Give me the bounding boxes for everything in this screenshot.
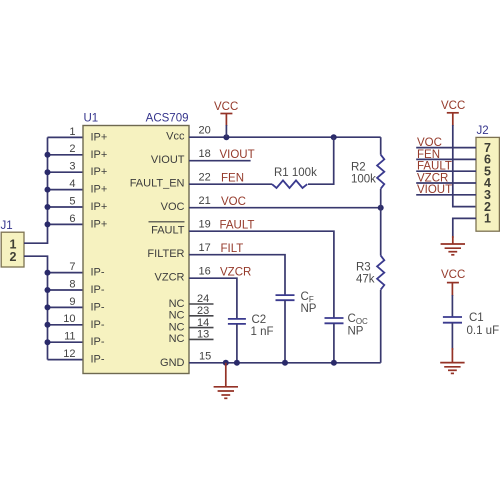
capacitor Coc xyxy=(325,313,369,337)
wire VOC to J2 pin 7 xyxy=(416,147,476,149)
wire VZCR to J2 pin 4 xyxy=(416,182,476,184)
svg-text:19: 19 xyxy=(199,219,211,231)
svg-text:IP-: IP- xyxy=(91,267,105,279)
svg-text:VCC: VCC xyxy=(441,100,465,112)
svg-text:IP+: IP+ xyxy=(91,201,108,213)
svg-text:VZCR: VZCR xyxy=(417,172,448,184)
svg-text:C2: C2 xyxy=(252,314,267,326)
svg-text:3: 3 xyxy=(69,161,75,173)
wire J1 pin1 to IP+ bus xyxy=(24,137,48,243)
junction dots IP+ bus xyxy=(45,152,51,228)
node R1 pull-up junction xyxy=(331,134,337,140)
svg-text:IP+: IP+ xyxy=(91,149,108,161)
svg-text:IP+: IP+ xyxy=(91,218,108,230)
svg-text:VZCR: VZCR xyxy=(155,272,185,284)
svg-text:4: 4 xyxy=(69,178,75,190)
VCC supply symbol above J2 xyxy=(441,100,465,126)
svg-text:2: 2 xyxy=(69,143,75,155)
wire IP+ pin3 xyxy=(48,171,84,173)
wire R2 bottom to VOC xyxy=(380,189,382,208)
svg-text:1: 1 xyxy=(484,212,491,226)
svg-text:VOC: VOC xyxy=(161,201,185,213)
svg-text:J1: J1 xyxy=(1,220,13,232)
U1 right pin names xyxy=(130,131,185,369)
svg-text:47k: 47k xyxy=(356,274,375,286)
wire VCC rail down to R2 xyxy=(380,137,382,155)
svg-text:21: 21 xyxy=(199,195,211,207)
wire VZCR pin 16 to C2 xyxy=(189,278,237,319)
U1 left pin names IP- xyxy=(91,267,105,366)
junction dots IP- bus xyxy=(45,270,51,346)
left pin numbers 1-12 xyxy=(63,126,75,360)
wire VOC pin 21 xyxy=(189,207,381,209)
svg-text:8: 8 xyxy=(69,278,75,290)
node Cf tap xyxy=(282,360,288,366)
svg-text:11: 11 xyxy=(64,331,75,343)
svg-text:20: 20 xyxy=(199,125,211,137)
svg-text:100k: 100k xyxy=(351,174,376,186)
node C2 tap xyxy=(234,360,240,366)
VCC supply symbol above C1 xyxy=(441,269,465,296)
node VOC divider junction xyxy=(378,205,384,211)
svg-text:5: 5 xyxy=(69,195,75,207)
svg-text:1: 1 xyxy=(69,126,75,138)
svg-text:15: 15 xyxy=(199,350,211,362)
wire FILT pin 17 to Cf xyxy=(189,255,285,295)
svg-text:VCC: VCC xyxy=(441,269,465,281)
wire C2 bottom to ground rail xyxy=(236,324,238,363)
wire Cf bottom to ground rail xyxy=(284,300,286,363)
svg-text:NC: NC xyxy=(169,321,185,333)
wire IP+ pin4 xyxy=(48,189,84,191)
wire IP+ pin1 xyxy=(48,136,84,138)
svg-text:IP+: IP+ xyxy=(91,131,108,143)
wire VCC to J2 pin 2 xyxy=(453,125,476,207)
wire IP- pin9 xyxy=(48,306,84,308)
wire FAULT pin 19 to Coc xyxy=(189,231,334,318)
wire R3 bottom to ground rail xyxy=(380,290,382,363)
svg-text:FILTER: FILTER xyxy=(147,248,184,260)
svg-text:VIOUT: VIOUT xyxy=(220,149,255,161)
svg-text:U1: U1 xyxy=(84,113,99,125)
svg-text:R2: R2 xyxy=(351,162,366,174)
svg-text:C1: C1 xyxy=(469,312,484,324)
NC stub pin 13 xyxy=(189,338,214,340)
svg-text:22: 22 xyxy=(199,172,211,184)
resistor R2 xyxy=(351,155,384,189)
svg-text:R3: R3 xyxy=(356,262,371,274)
ground symbol below pin 15 rail xyxy=(214,363,238,399)
capacitor C1 xyxy=(443,312,499,337)
wire R1 right to VCC rail xyxy=(308,137,334,184)
NC stub pin 14 xyxy=(189,327,214,329)
wire IP- pin8 xyxy=(48,289,84,291)
svg-text:17: 17 xyxy=(199,242,211,254)
wire VIOUT to J2 pin 3 xyxy=(416,194,476,196)
wire FEN to J2 pin 6 xyxy=(416,158,476,160)
svg-text:FAULT: FAULT xyxy=(151,225,185,237)
svg-text:IP+: IP+ xyxy=(91,184,108,196)
svg-text:NC: NC xyxy=(169,333,185,345)
svg-text:IP-: IP- xyxy=(91,301,105,313)
svg-text:FEN: FEN xyxy=(221,173,244,185)
svg-text:VCC: VCC xyxy=(214,101,238,113)
svg-text:1 nF: 1 nF xyxy=(251,326,274,338)
svg-text:7: 7 xyxy=(69,261,75,273)
svg-text:IP-: IP- xyxy=(91,336,105,348)
capacitor Cf xyxy=(276,291,317,315)
wire IP+ pin6 xyxy=(48,223,84,225)
svg-text:FILT: FILT xyxy=(221,243,244,255)
svg-text:ACS709: ACS709 xyxy=(146,113,189,125)
svg-text:6: 6 xyxy=(69,213,75,225)
svg-text:10: 10 xyxy=(63,313,75,325)
svg-text:Vcc: Vcc xyxy=(166,131,185,143)
wire IP- pin12 xyxy=(48,359,84,361)
svg-text:VIOUT: VIOUT xyxy=(151,154,185,166)
wire FEN pin 22 to R1 xyxy=(189,183,272,185)
resistor R3 xyxy=(356,256,384,290)
U1 FAULT pin name overline xyxy=(149,221,185,223)
svg-text:18: 18 xyxy=(199,148,211,160)
resistor R1 xyxy=(272,167,317,188)
wire IP- pin10 xyxy=(48,324,84,326)
svg-text:NC: NC xyxy=(169,298,185,310)
svg-text:FAULT: FAULT xyxy=(220,220,255,232)
wire IP- pin7 xyxy=(48,272,84,274)
ground symbol below J2 xyxy=(441,236,465,255)
svg-text:VZCR: VZCR xyxy=(220,267,251,279)
wire J2 pin 1 to ground xyxy=(453,218,476,238)
wire VOC down to R3 xyxy=(380,208,382,256)
op-amp U1 ACS709 body xyxy=(83,113,189,374)
svg-text:IP+: IP+ xyxy=(91,166,108,178)
svg-text:J2: J2 xyxy=(477,125,489,137)
ground symbol below C1 xyxy=(440,348,464,373)
svg-text:FAULT_EN: FAULT_EN xyxy=(130,178,185,190)
svg-text:NC: NC xyxy=(169,310,185,322)
wire VCC to C1 xyxy=(451,295,453,317)
connector J1 xyxy=(1,220,25,267)
connector J2 xyxy=(476,125,499,231)
svg-text:NP: NP xyxy=(301,303,317,315)
capacitor C2 xyxy=(228,314,274,338)
VCC supply symbol above pin 20 xyxy=(214,101,238,137)
svg-text:IP-: IP- xyxy=(91,284,105,296)
svg-text:0.1 uF: 0.1 uF xyxy=(467,325,500,337)
wire IP+ pin2 xyxy=(48,154,84,156)
J2 pin numbers 7-1 xyxy=(484,141,491,226)
node VCC junction at pin 20 xyxy=(223,134,229,140)
svg-text:IP-: IP- xyxy=(91,354,105,366)
NC stub pin 23 xyxy=(189,315,214,317)
svg-text:16: 16 xyxy=(199,266,211,278)
node Coc tap xyxy=(331,360,337,366)
wire GND pin 15 rail xyxy=(189,362,381,364)
svg-text:VOC: VOC xyxy=(417,137,442,149)
wire Coc bottom to ground rail xyxy=(333,323,335,363)
wire Vcc pin 20 rail xyxy=(189,136,381,138)
NC stub pin 24 xyxy=(189,303,214,305)
svg-text:NP: NP xyxy=(348,325,364,337)
wire IP- pin11 xyxy=(48,341,84,343)
svg-text:GND: GND xyxy=(160,357,185,369)
svg-text:R1 100k: R1 100k xyxy=(274,167,317,179)
svg-text:9: 9 xyxy=(69,296,75,308)
U1 left pin names IP+ xyxy=(91,131,108,230)
wire C1 bottom to ground xyxy=(451,323,453,350)
svg-text:FAULT: FAULT xyxy=(417,161,452,173)
svg-text:VOC: VOC xyxy=(221,196,246,208)
svg-text:2: 2 xyxy=(10,250,17,264)
wire J1 pin2 to IP- bus xyxy=(24,256,48,359)
svg-text:12: 12 xyxy=(63,348,75,360)
node ground tap xyxy=(223,360,229,366)
svg-text:IP-: IP- xyxy=(91,319,105,331)
wire FAULT to J2 pin 5 xyxy=(416,170,476,172)
svg-text:VIOUT: VIOUT xyxy=(417,184,452,196)
right pin numbers xyxy=(197,125,211,363)
wire IP+ pin5 xyxy=(48,206,84,208)
wire VIOUT pin 18 xyxy=(189,160,251,162)
svg-text:FEN: FEN xyxy=(417,149,440,161)
